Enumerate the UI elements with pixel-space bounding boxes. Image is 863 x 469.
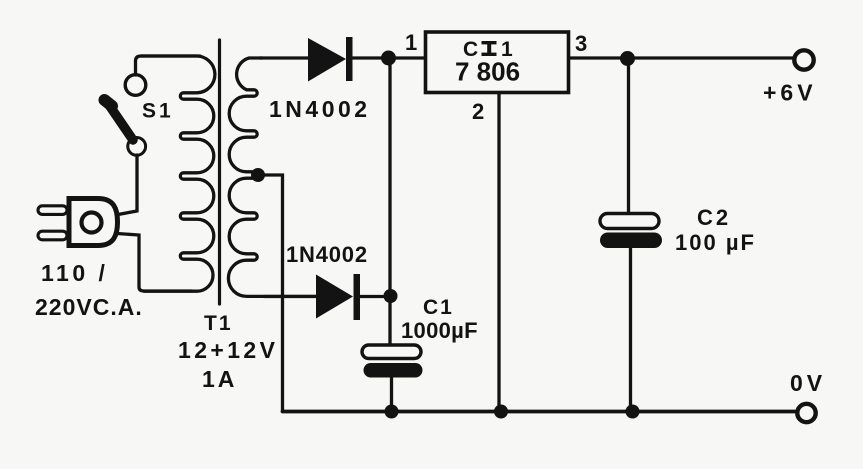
diode D2 bbox=[316, 274, 360, 320]
capacitor C2 top plate bbox=[600, 214, 659, 229]
top rail secondary to diode D1 bbox=[260, 56, 308, 59]
svg-text:1N4002: 1N4002 bbox=[269, 96, 371, 122]
wire plug to switch bbox=[118, 155, 137, 215]
wire secondary bottom to diode D2 bbox=[264, 295, 316, 298]
svg-text:110 /: 110 / bbox=[41, 260, 108, 286]
capacitor C1 bottom plate bbox=[364, 363, 423, 378]
transformer T1 secondary winding bbox=[228, 58, 316, 296]
switch S1 lever bbox=[106, 101, 133, 141]
bottom rail junction dot pin2 bbox=[494, 405, 508, 419]
top rail pin3 to +6V bbox=[569, 56, 794, 59]
capacitor C1 top plate bbox=[362, 345, 421, 359]
svg-text:220VC.A.: 220VC.A. bbox=[35, 294, 143, 320]
svg-text:1N4002: 1N4002 bbox=[286, 242, 368, 267]
plug hole bbox=[82, 213, 102, 233]
svg-text:C1: C1 bbox=[423, 296, 454, 319]
node A junction dot bbox=[381, 51, 396, 66]
svg-text:S1: S1 bbox=[142, 100, 174, 123]
plug prong lower bbox=[38, 231, 67, 240]
transformer T1 primary winding bbox=[141, 56, 215, 291]
svg-text:1000µF: 1000µF bbox=[401, 318, 478, 343]
switch S1 terminal top bbox=[125, 75, 146, 96]
plug body bbox=[69, 199, 118, 246]
svg-text:1A: 1A bbox=[202, 366, 237, 392]
svg-text:3: 3 bbox=[575, 31, 587, 56]
terminal +6V bbox=[794, 50, 813, 69]
plug prong upper bbox=[38, 206, 67, 215]
capacitor C2 bottom plate bbox=[600, 233, 662, 249]
svg-text:+6V: +6V bbox=[763, 80, 817, 106]
svg-text:C2: C2 bbox=[697, 205, 731, 230]
wire CI1 pin 2 to bottom rail bbox=[497, 93, 500, 412]
wire secondary center tap to bottom rail bbox=[258, 175, 283, 412]
bottom rail junction dot C2 bbox=[626, 405, 640, 419]
wire D2 cathode to node B bbox=[360, 295, 389, 298]
bottom rail junction dot C1 bbox=[385, 405, 399, 419]
svg-text:7 806: 7 806 bbox=[455, 57, 520, 87]
wire C2 to bottom rail bbox=[629, 248, 632, 412]
svg-text:T1: T1 bbox=[204, 312, 233, 335]
node B junction dot (D2 cathode) bbox=[384, 289, 398, 303]
wire node C to C2 bbox=[627, 58, 630, 213]
svg-text:1: 1 bbox=[405, 30, 417, 55]
svg-text:12+12V: 12+12V bbox=[178, 337, 278, 363]
wire D1 cathode to node A bbox=[352, 56, 425, 59]
transformer T1 core bbox=[218, 40, 221, 304]
svg-text:0V: 0V bbox=[790, 370, 826, 396]
vertical wire node A to C1 bbox=[388, 58, 391, 345]
diode D1 bbox=[308, 37, 353, 82]
wire C1 to bottom rail bbox=[390, 378, 393, 412]
switch S1 terminal bottom bbox=[128, 138, 146, 156]
wire S1 to primary top bbox=[136, 56, 201, 75]
terminal 0V bbox=[797, 404, 815, 422]
svg-text:100 µF: 100 µF bbox=[675, 230, 756, 255]
svg-text:2: 2 bbox=[472, 99, 484, 124]
bottom rail bbox=[283, 410, 799, 414]
regulator CI1 box bbox=[426, 32, 569, 93]
node C junction dot bbox=[620, 51, 635, 66]
center tap junction dot bbox=[251, 168, 265, 182]
wire plug to primary bottom bbox=[117, 234, 192, 292]
